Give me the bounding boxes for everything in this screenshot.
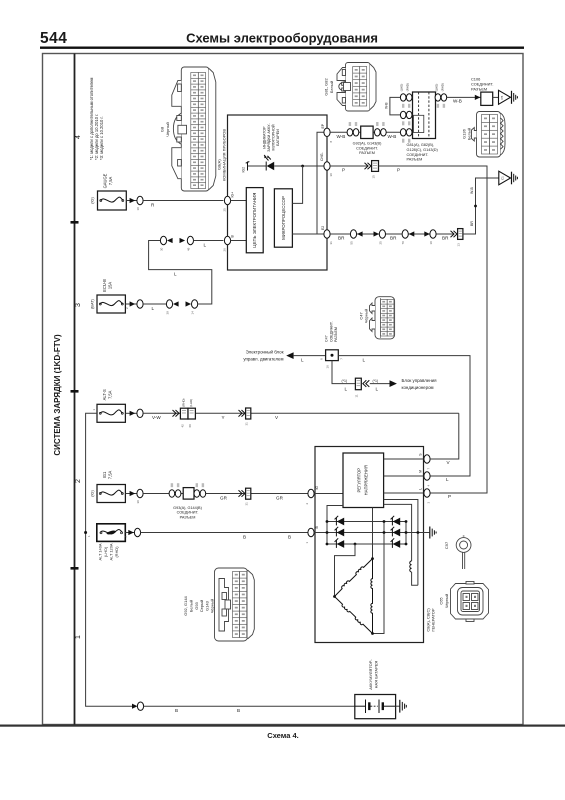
generator pin L <box>424 489 430 497</box>
svg-text:V: V <box>447 460 451 465</box>
connector C47 illustration <box>359 297 395 339</box>
svg-text:544: 544 <box>40 30 67 47</box>
arrow into pin <box>128 530 134 535</box>
LED charge indicator <box>264 155 274 171</box>
connector G8 lower wing <box>172 148 182 179</box>
block МИКРОПРОЦЕССОР <box>274 189 292 247</box>
svg-text:ИНДИКАТОР: ИНДИКАТОР <box>263 126 267 149</box>
svg-text:CHG-: CHG- <box>320 152 324 161</box>
wire regulator to pin S <box>384 458 424 460</box>
block ЦЕПЬ ЭЛЕКТРОПИТАНИЯ <box>246 188 263 253</box>
fuse ECU-B 15A <box>90 279 125 313</box>
wire L segment <box>143 303 166 305</box>
section tick 4/3 <box>71 221 79 224</box>
svg-text:Чёрный: Чёрный <box>444 594 449 608</box>
svg-text:W-B: W-B <box>388 134 397 139</box>
connector J on BR wire <box>451 229 463 247</box>
svg-text:ECU-B: ECU-B <box>102 279 107 292</box>
wire EP internal <box>317 132 324 234</box>
svg-text:СОЕДИНИТ.: СОЕДИНИТ. <box>177 511 199 515</box>
svg-text:L: L <box>152 306 155 311</box>
svg-text:26: 26 <box>223 248 227 252</box>
svg-text:G136: G136 <box>461 128 466 139</box>
arrow into pin <box>130 198 136 203</box>
svg-text:Белый: Белый <box>189 600 194 612</box>
svg-text:IG: IG <box>315 486 319 490</box>
connector J31 on Y row <box>239 408 251 426</box>
svg-text:30: 30 <box>160 247 164 251</box>
svg-text:Чёрный: Чёрный <box>165 122 170 136</box>
pin circle 2 <box>134 528 140 536</box>
svg-text:E2: E2 <box>321 226 325 230</box>
cluster pin CHG- <box>324 162 330 170</box>
cluster pin IG+ <box>224 196 230 204</box>
svg-text:Y: Y <box>222 415 225 420</box>
svg-text:P: P <box>397 168 400 173</box>
wire L branch to A/C <box>332 361 355 384</box>
svg-text:МУЛЯТОРНОЙ: МУЛЯТОРНОЙ <box>272 124 276 150</box>
stator edge top-left coils <box>335 559 373 597</box>
junction dot bus/ALT fuse <box>84 531 87 534</box>
svg-text:(LHD): (LHD) <box>189 399 193 407</box>
svg-text:11: 11 <box>355 394 359 397</box>
svg-text:L: L <box>446 477 449 482</box>
pin pair block right row1 <box>435 94 441 101</box>
arrow into C106 <box>475 95 481 100</box>
section tick 3/2 <box>71 390 79 393</box>
wire IG into regulator <box>314 493 343 495</box>
wire ALT-S to pin <box>125 412 137 414</box>
svg-text:P: P <box>448 494 451 499</box>
IG2 tap <box>247 162 249 171</box>
svg-text:(*1): (*1) <box>342 379 348 383</box>
connector J on P wire <box>365 161 379 179</box>
svg-text:РАЗЪЕМ: РАЗЪЕМ <box>471 86 487 91</box>
svg-text:IG2: IG2 <box>242 167 246 173</box>
wire LED to CHG- <box>274 165 324 167</box>
rectifier row3 <box>327 543 406 545</box>
connector G8 middle bulge <box>173 113 181 144</box>
connector G8 centre latch <box>178 125 187 134</box>
wire microprocessor to E2 <box>292 233 324 235</box>
svg-text:C65: C65 <box>439 597 444 605</box>
svg-text:2: 2 <box>75 479 82 483</box>
wire GAUGE fuse to pin <box>126 200 137 202</box>
connector G8 right bevel <box>209 69 216 190</box>
section tick 2/1 <box>71 567 79 570</box>
svg-text:W-B: W-B <box>453 98 462 103</box>
connector G8 upper wing <box>172 80 182 106</box>
regulator P tap to stator <box>372 508 374 559</box>
svg-text:16: 16 <box>326 365 330 369</box>
svg-text:4: 4 <box>427 485 431 487</box>
fuse ALT-S 7.5A <box>92 389 126 422</box>
diode D2 <box>335 527 345 537</box>
svg-text:V-W: V-W <box>152 415 161 420</box>
wire P from CHG- <box>330 165 368 167</box>
arrow to ECM <box>286 352 293 359</box>
svg-text:G81, G82: G81, G82 <box>324 78 329 96</box>
svg-text:L: L <box>418 488 422 490</box>
svg-text:BR: BR <box>442 236 449 241</box>
svg-text:СОЕДИНИТ.: СОЕДИНИТ. <box>407 153 429 157</box>
svg-text:15: 15 <box>372 175 376 179</box>
wire ALT fuse to pin <box>125 532 134 534</box>
svg-text:7,5A: 7,5A <box>108 177 113 186</box>
svg-text:M: M <box>418 470 422 473</box>
connector C106 <box>481 92 493 105</box>
svg-text:L: L <box>204 242 207 247</box>
diode D3 <box>335 538 345 548</box>
svg-text:P: P <box>342 168 345 173</box>
svg-text:W-B: W-B <box>470 186 474 194</box>
pin circle <box>137 409 143 417</box>
arrow into pin <box>130 301 136 306</box>
svg-text:BR: BR <box>390 236 397 241</box>
wire B to power circuit <box>231 240 247 242</box>
svg-text:ALT 120A: ALT 120A <box>109 543 114 560</box>
junction dot BR/W-B <box>474 205 477 208</box>
connector G81 G82 illustration <box>324 63 377 112</box>
arrow to A/C <box>390 380 397 387</box>
connector block G81(A) G82(B) G128(C) G143(D) <box>407 92 439 162</box>
wire L to cluster pin B <box>194 240 224 242</box>
svg-text:L: L <box>345 386 348 391</box>
arrow into pin <box>130 491 136 496</box>
svg-text:8: 8 <box>320 358 324 360</box>
svg-text:31: 31 <box>244 502 248 506</box>
svg-text:7,5A: 7,5A <box>108 471 113 480</box>
wire regulator to pin M <box>384 475 424 477</box>
svg-text:РАЗЪЕМ: РАЗЪЕМ <box>407 158 423 162</box>
wire W-B to C106 <box>447 96 481 98</box>
svg-text:L: L <box>376 386 379 391</box>
svg-text:10: 10 <box>136 207 140 211</box>
svg-text:ЦЕПЬ ЭЛЕКТРОПИТАНИЯ: ЦЕПЬ ЭЛЕКТРОПИТАНИЯ <box>252 193 257 248</box>
generator pin M <box>424 472 430 480</box>
connector J on GR row <box>239 488 251 505</box>
svg-text:4: 4 <box>75 135 82 139</box>
svg-text:2: 2 <box>305 503 309 505</box>
stator edge bottom-left coils <box>335 597 373 634</box>
svg-text:(RHD): (RHD) <box>182 398 186 406</box>
svg-text:GR: GR <box>276 495 284 500</box>
connector pair G92(A) G143(B) <box>347 122 386 155</box>
arrow into pin <box>130 411 136 416</box>
svg-text:C1: C1 <box>500 176 504 180</box>
svg-text:Белый: Белый <box>329 81 334 93</box>
pin pair 55/25 <box>350 230 356 238</box>
pin circle battery wire <box>137 702 143 710</box>
connector G8 body <box>181 67 209 191</box>
svg-text:25: 25 <box>223 208 227 212</box>
svg-text:(RHD): (RHD) <box>440 83 444 91</box>
battery box <box>355 695 396 719</box>
combination meter box G8(A) <box>228 115 328 270</box>
pin pair into block row3 <box>400 129 406 136</box>
inner column separator <box>74 54 76 725</box>
connector C47 junction <box>320 321 344 368</box>
wire BR up to ground <box>463 178 499 234</box>
svg-text:Чёрный: Чёрный <box>210 599 215 613</box>
fuse GAUGE 7.5A <box>91 173 127 210</box>
fuse ALT 140A/120A fusible link <box>87 524 126 561</box>
wire junction to microprocessor <box>292 166 302 203</box>
diode D4 <box>391 516 401 526</box>
svg-text:ALT 140A: ALT 140A <box>98 543 103 560</box>
svg-text:7,5A: 7,5A <box>108 390 113 399</box>
svg-text:(BAT): (BAT) <box>90 298 94 308</box>
junction dots rectifier <box>326 520 329 523</box>
svg-text:ЗАРЯДКИ АККУ-: ЗАРЯДКИ АККУ- <box>267 123 271 152</box>
wire EP W-B row <box>330 131 400 133</box>
svg-text:управл. двигателем: управл. двигателем <box>243 356 283 361</box>
generator pin IG <box>308 489 314 497</box>
svg-text:55: 55 <box>350 241 354 245</box>
svg-text:C97: C97 <box>444 541 449 549</box>
svg-text:кондиционером: кондиционером <box>402 385 434 390</box>
ground point triangle C5 <box>499 90 518 104</box>
svg-text:C47: C47 <box>325 335 329 342</box>
wire C106 to ground point <box>493 96 499 98</box>
svg-text:СОЕДИНИТ.: СОЕДИНИТ. <box>329 321 333 342</box>
svg-text:ГЕНЕРАТОР: ГЕНЕРАТОР <box>431 608 436 632</box>
rotor field coil <box>384 500 420 586</box>
svg-text:G92(A), G143(B): G92(A), G143(B) <box>353 142 382 146</box>
svg-text:25: 25 <box>378 241 382 245</box>
svg-text:(LHD): (LHD) <box>400 84 404 92</box>
svg-text:1: 1 <box>305 542 309 544</box>
svg-text:КОМБИНАЦИЯ ПРИБОРОВ: КОМБИНАЦИЯ ПРИБОРОВ <box>222 129 227 181</box>
svg-text:V: V <box>275 415 279 420</box>
svg-text:(IG): (IG) <box>91 197 95 204</box>
svg-text:(RHD): (RHD) <box>114 546 119 558</box>
svg-text:Серый: Серый <box>199 600 204 612</box>
svg-text:7: 7 <box>340 358 344 360</box>
svg-text:НАПРЯЖЕНИЯ: НАПРЯЖЕНИЯ <box>364 465 369 495</box>
ground point triangle C1 <box>499 171 518 185</box>
wire regulator to left rail <box>327 506 343 545</box>
wire L staircase to cluster B <box>149 241 212 305</box>
svg-text:АККУМУЛЯТОР-: АККУМУЛЯТОР- <box>368 659 373 690</box>
generator box C8 <box>315 447 424 643</box>
svg-text:W-B: W-B <box>384 102 388 109</box>
svg-text:РАЗЪЕМ: РАЗЪЕМ <box>180 515 196 519</box>
wire L to C-AT <box>294 355 326 357</box>
wire battery feed B <box>132 704 138 709</box>
svg-text:МИКРОПРОЦЕССОР: МИКРОПРОЦЕССОР <box>281 196 286 240</box>
wire IG1 to pin <box>125 493 137 495</box>
pin pair 39/14 <box>166 300 172 308</box>
connector G92 G144 illustration <box>183 568 254 641</box>
connector J on A/C branch <box>355 378 370 397</box>
wire V-W / Y / V row to generator S <box>143 412 459 414</box>
svg-text:Схема 4.: Схема 4. <box>267 731 298 740</box>
wire L to generator M pin <box>338 356 470 476</box>
battery cells <box>355 700 396 714</box>
svg-text:15A: 15A <box>108 282 113 290</box>
pin circle 2 <box>137 300 143 308</box>
svg-text:G81(A), G82(B),: G81(A), G82(B), <box>407 143 435 147</box>
svg-text:1: 1 <box>75 635 82 639</box>
pin pair row2 <box>400 111 406 118</box>
svg-text:ALT-S: ALT-S <box>102 389 107 400</box>
svg-text:L: L <box>174 272 177 277</box>
svg-text:49: 49 <box>186 247 190 251</box>
svg-text:Схемы электрооборудования: Схемы электрооборудования <box>186 31 378 46</box>
svg-text:(LHD): (LHD) <box>103 546 108 557</box>
svg-text:BR: BR <box>338 236 345 241</box>
diode D6 <box>391 538 401 548</box>
svg-text:31: 31 <box>244 422 248 426</box>
connector pair 42(RHD)/60(LHD) <box>173 398 196 427</box>
svg-text:Белый: Белый <box>467 128 472 140</box>
header rule <box>40 47 524 49</box>
svg-text:B: B <box>243 534 246 539</box>
svg-text:РЕГУЛЯТОР: РЕГУЛЯТОР <box>357 468 362 493</box>
rectifier row1 <box>327 521 406 523</box>
stator edge right coils <box>371 559 373 634</box>
pin circle 10 <box>137 196 143 204</box>
svg-text:G93: G93 <box>194 601 199 609</box>
svg-text:10: 10 <box>429 241 433 245</box>
svg-text:13: 13 <box>457 243 461 247</box>
svg-text:GR: GR <box>220 495 228 500</box>
svg-text:*3: модели с 10.2010 г.: *3: модели с 10.2010 г. <box>99 116 104 160</box>
svg-text:НАЯ БАТАРЕЯ: НАЯ БАТАРЕЯ <box>373 661 378 689</box>
pin pair 70/10 <box>402 230 408 238</box>
connector G8 pin number specks <box>193 75 204 187</box>
svg-text:1: 1 <box>87 535 91 537</box>
wire BR from E2 <box>330 233 454 235</box>
svg-text:(RHD): (RHD) <box>406 83 410 91</box>
svg-text:G8: G8 <box>160 126 165 132</box>
svg-text:(*1): (*1) <box>373 379 379 383</box>
svg-text:14: 14 <box>191 311 195 315</box>
svg-text:G128(C), G143(D): G128(C), G143(D) <box>407 148 439 152</box>
generator internal ground <box>430 527 436 539</box>
left bus vertical B <box>86 413 134 706</box>
pin pair 30/49 <box>160 236 166 244</box>
wire P to generator L pin <box>379 166 488 493</box>
svg-text:СИСТЕМА ЗАРЯДКИ (1KD-FTV): СИСТЕМА ЗАРЯДКИ (1KD-FTV) <box>53 334 62 456</box>
wire B into rectifier <box>314 532 429 534</box>
wire regulator to pin L <box>384 492 424 494</box>
svg-text:БАТАРЕИ: БАТАРЕИ <box>276 129 280 146</box>
svg-text:(IG): (IG) <box>90 490 94 497</box>
pin pair row1 <box>400 94 406 101</box>
connector pair G93(A) G144(B) <box>169 483 206 519</box>
wire to A/C control <box>370 383 390 385</box>
connector C97 ring terminal <box>444 536 471 569</box>
svg-text:GAUGE: GAUGE <box>102 173 107 188</box>
svg-text:(LHD): (LHD) <box>434 84 438 92</box>
svg-text:Блок управления: Блок управления <box>402 378 438 383</box>
svg-text:S: S <box>418 453 422 456</box>
svg-text:СОЕДИНИТ.: СОЕДИНИТ. <box>356 146 378 150</box>
pin circle 10 <box>137 489 143 497</box>
svg-text:3: 3 <box>75 303 82 307</box>
rectifier mid tap / bottom phase <box>373 522 385 634</box>
wire R to cluster IG+ <box>143 200 223 202</box>
svg-text:R: R <box>151 202 155 207</box>
jumper wire rows 1-2 <box>390 97 400 115</box>
diode D5 <box>391 527 401 537</box>
svg-text:1: 1 <box>92 409 96 411</box>
svg-text:8: 8 <box>329 141 333 143</box>
cluster pin EP <box>324 128 330 136</box>
svg-text:C5: C5 <box>500 95 504 99</box>
battery ground <box>396 700 407 713</box>
wire ECU-B fuse to pin <box>125 303 137 305</box>
generator pin B <box>308 528 314 536</box>
svg-text:31: 31 <box>329 241 333 245</box>
svg-text:3: 3 <box>427 502 431 504</box>
wire Y pin S feed <box>430 413 459 459</box>
fuse IG1 7.5A <box>90 471 125 503</box>
svg-text:42: 42 <box>181 424 185 428</box>
stator phase tap left <box>335 544 356 597</box>
connector C65 illustration <box>439 582 489 622</box>
connector G136 illustration <box>461 112 505 158</box>
svg-text:G92, G144: G92, G144 <box>183 595 188 615</box>
svg-text:30: 30 <box>136 500 140 504</box>
frame bottom thick line <box>0 725 565 727</box>
stator winding delta <box>333 544 374 635</box>
outer frame <box>43 54 524 725</box>
svg-text:B: B <box>315 526 319 529</box>
svg-text:B: B <box>237 708 240 713</box>
svg-text:7: 7 <box>427 468 431 470</box>
cluster pin E2 <box>324 230 330 238</box>
svg-text:39: 39 <box>166 311 170 315</box>
cluster pin B <box>224 236 230 244</box>
svg-text:EP: EP <box>321 123 325 128</box>
svg-text:G93(A), G144(B): G93(A), G144(B) <box>173 506 202 510</box>
svg-text:BR: BR <box>470 221 474 226</box>
svg-text:C8(A), C8(C): C8(A), C8(C) <box>425 608 430 632</box>
svg-text:B: B <box>175 708 178 713</box>
wire IG+ to power circuit <box>231 200 247 202</box>
rectifier right rail <box>405 522 407 545</box>
svg-text:G143: G143 <box>204 600 209 611</box>
svg-text:РАЗЪЕМ: РАЗЪЕМ <box>334 327 338 342</box>
svg-text:Электронный блок: Электронный блок <box>246 349 284 354</box>
svg-text:РАЗЪЕМ: РАЗЪЕМ <box>359 151 375 155</box>
svg-text:W-B: W-B <box>337 134 346 139</box>
svg-text:Чёрный: Чёрный <box>364 309 369 323</box>
svg-text:60: 60 <box>188 424 192 428</box>
svg-text:L: L <box>301 357 304 362</box>
wire GR row to generator IG <box>143 493 308 495</box>
svg-text:L: L <box>363 357 366 362</box>
wire B row to generator B <box>141 532 308 534</box>
svg-text:30: 30 <box>329 173 333 177</box>
junction dot <box>301 165 304 168</box>
svg-text:IG1: IG1 <box>102 471 107 478</box>
svg-text:B: B <box>288 534 291 539</box>
diode D1 <box>335 516 345 526</box>
svg-text:70: 70 <box>401 241 405 245</box>
generator pin S <box>424 455 430 463</box>
svg-text:IG+: IG+ <box>231 192 235 198</box>
wire IG2 to LED <box>248 165 267 167</box>
regulator box <box>343 453 384 508</box>
connector G8 pin grid <box>191 73 206 189</box>
